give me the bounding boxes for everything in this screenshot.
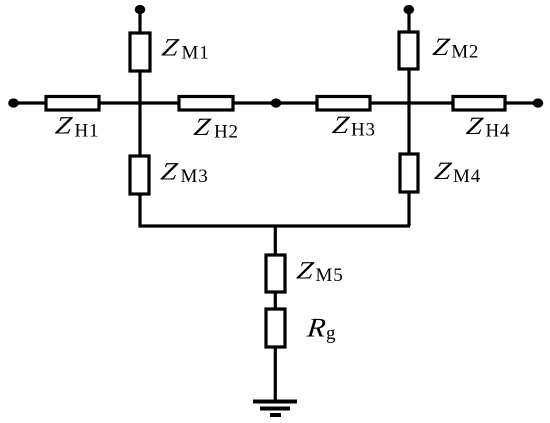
wire: right vertical branch x=409	[407, 9, 410, 226]
svg-text:H3: H3	[351, 120, 376, 141]
label Rg	[305, 314, 336, 344]
node: left terminal	[8, 98, 19, 107]
svg-text:Z: Z	[159, 157, 180, 185]
label ZH1	[54, 111, 100, 141]
wire: left vertical branch x=140	[138, 9, 141, 226]
label ZM5	[295, 256, 343, 286]
label ZM3	[159, 157, 208, 187]
svg-text:H2: H2	[214, 122, 239, 143]
svg-text:M4: M4	[453, 166, 481, 187]
resistor ZM1	[130, 33, 150, 71]
svg-text:M5: M5	[316, 265, 344, 286]
svg-text:Z: Z	[192, 113, 213, 141]
wire: main horizontal bus y=103	[13, 101, 538, 104]
svg-text:H4: H4	[486, 121, 511, 142]
svg-text:Z: Z	[465, 112, 486, 140]
wire: center ground branch x=275.3	[274, 226, 277, 401]
svg-text:Z: Z	[433, 157, 454, 185]
svg-text:M2: M2	[451, 42, 479, 63]
label ZM2	[431, 33, 479, 63]
svg-text:R: R	[305, 314, 327, 343]
svg-text:g: g	[326, 323, 336, 344]
svg-text:Z: Z	[160, 33, 181, 61]
label ZH4	[465, 112, 511, 142]
resistor ZM3	[130, 156, 149, 194]
svg-text:Z: Z	[331, 111, 352, 139]
node: top-left terminal	[135, 5, 146, 14]
wire: bottom horizontal bus y=226	[139, 224, 411, 227]
svg-text:H1: H1	[75, 121, 100, 142]
node: right terminal	[533, 98, 544, 107]
ground	[253, 402, 297, 416]
resistor ZH1	[46, 97, 99, 111]
svg-text:M3: M3	[181, 166, 209, 187]
label ZH2	[192, 113, 239, 143]
node: middle junction dot	[271, 98, 282, 107]
svg-text:Z: Z	[431, 33, 452, 61]
resistor ZM5	[266, 255, 285, 292]
svg-text:Z: Z	[295, 256, 316, 284]
resistor ZH2	[179, 97, 233, 111]
resistor ZM4	[400, 154, 418, 192]
resistor ZM2	[399, 32, 418, 69]
resistor Rg	[266, 309, 285, 347]
resistor ZH4	[453, 97, 505, 111]
label ZH3	[331, 111, 376, 141]
label ZM4	[433, 157, 481, 187]
resistor ZH3	[317, 97, 370, 111]
svg-text:Z: Z	[54, 111, 75, 139]
svg-text:M1: M1	[182, 43, 210, 64]
node: top-right terminal	[404, 5, 415, 14]
label ZM1	[160, 33, 209, 63]
